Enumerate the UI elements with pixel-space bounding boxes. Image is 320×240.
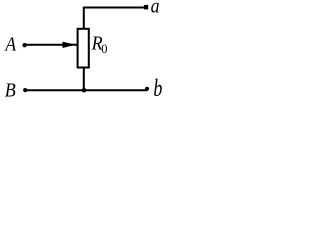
svg-text:a: a — [151, 0, 160, 18]
wire: top horizontal from resistor top to terminal a — [84, 8, 146, 29]
wire: wiper arm from terminal A into resistor — [25, 44, 77, 46]
wire: bottom stub from resistor to bottom rail — [83, 68, 85, 91]
wire: bottom rail from B to b — [25, 89, 147, 91]
svg-text:A: A — [4, 34, 17, 56]
wiper arrowhead — [63, 42, 76, 48]
resistor R0 body — [78, 29, 89, 68]
svg-text:0: 0 — [101, 42, 107, 56]
terminal b dot — [145, 87, 149, 91]
svg-text:b: b — [153, 74, 162, 101]
terminal a square pad — [144, 5, 148, 9]
terminal A dot — [22, 43, 26, 47]
junction dot — [82, 88, 87, 93]
terminal B dot — [23, 88, 27, 92]
svg-text:B: B — [5, 80, 16, 102]
